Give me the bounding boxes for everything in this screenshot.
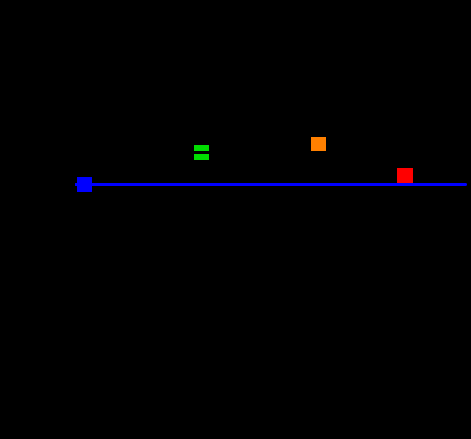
ground line (blue) — [75, 183, 467, 186]
coin square (orange) — [311, 137, 325, 152]
platform bar top (green) — [194, 145, 209, 151]
player square (blue) — [77, 177, 92, 192]
platform bar bottom (green) — [194, 154, 209, 160]
obstacle square (red) — [397, 168, 413, 183]
